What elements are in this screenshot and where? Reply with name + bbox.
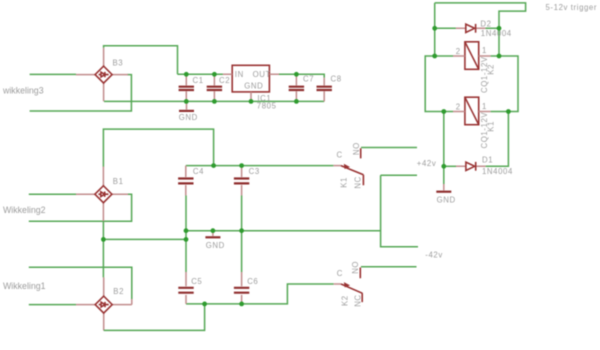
- wire B3 plus output to top rail: [104, 46, 178, 75]
- svg-text:1: 1: [482, 102, 487, 111]
- svg-text:D2: D2: [480, 20, 491, 29]
- svg-text:C: C: [337, 269, 343, 278]
- svg-text:D1: D1: [482, 156, 493, 165]
- wire mid ground rail: [186, 230, 381, 232]
- svg-text:+42v: +42v: [417, 159, 437, 168]
- capacitor C7: [289, 74, 314, 101]
- svg-text:OUT: OUT: [253, 70, 271, 79]
- wire K2 NO: [361, 266, 417, 268]
- diode D2 1N4004: [435, 20, 512, 38]
- svg-text:GND: GND: [179, 113, 198, 122]
- wire B1 minus to C4 bottom: [103, 238, 186, 240]
- svg-text:K1: K1: [487, 121, 496, 132]
- svg-text:Wikkeling2: Wikkeling2: [3, 205, 46, 215]
- wire B1 plus output to mid rail: [103, 129, 213, 167]
- wire C5 C6 bottom rail to K2 common: [186, 284, 334, 304]
- wire wikkeling2 upper: [29, 193, 76, 195]
- wire ground rail top section: [104, 100, 324, 102]
- svg-text:1N4004: 1N4004: [481, 29, 512, 38]
- svg-text:NC: NC: [354, 294, 363, 306]
- svg-text:C6: C6: [247, 277, 258, 286]
- wire C4 bottom column: [185, 196, 187, 273]
- svg-text:1N4004: 1N4004: [482, 167, 513, 176]
- capacitor C2: [207, 74, 230, 101]
- junction dots bottom section: [202, 302, 207, 307]
- svg-text:GND: GND: [244, 82, 263, 91]
- svg-text:K1: K1: [340, 177, 349, 188]
- svg-text:K2: K2: [487, 64, 496, 75]
- wire wikkeling1 upper to B2 right pin: [29, 267, 132, 299]
- ground symbol GND right: [436, 166, 455, 204]
- wire wikkeling1 lower: [29, 304, 76, 306]
- svg-text:C2: C2: [219, 76, 230, 85]
- capacitor C5: [178, 272, 202, 304]
- capacitor C3: [234, 166, 260, 196]
- wire to -42v: [381, 175, 418, 247]
- capacitor C4: [178, 166, 204, 196]
- svg-text:2: 2: [456, 47, 461, 56]
- wire IC1 OUT to C7 C8: [279, 74, 324, 78]
- relay contact K1: [333, 142, 363, 188]
- junction dots mid section: [211, 163, 216, 168]
- relay coil K2: [453, 42, 496, 93]
- svg-text:C: C: [337, 150, 343, 159]
- junction dots top section: [184, 72, 189, 77]
- capacitor C8: [317, 75, 342, 102]
- svg-text:NC: NC: [354, 176, 363, 188]
- wire mid +42v rail: [186, 165, 334, 167]
- wire B2 minus output to C5 C6 rail: [104, 304, 205, 331]
- wire K2 pin1 bracket to K1 pin1: [491, 56, 518, 112]
- junction dots right section: [432, 26, 437, 31]
- relay coil K1: [453, 97, 496, 148]
- svg-text:C8: C8: [331, 75, 342, 84]
- capacitor C1: [179, 74, 204, 101]
- wire left coil column: [434, 3, 436, 56]
- svg-text:C1: C1: [193, 76, 204, 85]
- svg-text:GND: GND: [206, 241, 225, 250]
- svg-text:Wikkeling1: Wikkeling1: [3, 281, 46, 291]
- ground symbol GND mid: [205, 231, 224, 250]
- wire K1 NC stub rail: [381, 174, 417, 176]
- svg-text:IN: IN: [235, 70, 244, 79]
- svg-text:2: 2: [456, 102, 461, 111]
- svg-text:C4: C4: [193, 167, 204, 176]
- wire K2 pin2 bracket to K1 pin2: [425, 56, 453, 112]
- svg-text:NO: NO: [351, 261, 360, 274]
- bridge rectifier B3: [76, 48, 128, 102]
- wire K1 NO: [361, 147, 417, 149]
- svg-text:-42v: -42v: [425, 251, 443, 260]
- wire wikkeling3 upper: [30, 73, 76, 75]
- svg-text:GND: GND: [437, 196, 456, 205]
- bridge rectifier B2: [76, 277, 132, 330]
- svg-text:C5: C5: [191, 277, 202, 286]
- svg-text:1: 1: [482, 46, 487, 55]
- ground symbol GND top: [179, 101, 198, 122]
- svg-text:C7: C7: [303, 75, 314, 84]
- wire K1 pin2 down to junction: [443, 112, 445, 167]
- wire 5-12v trigger net: [435, 3, 526, 56]
- svg-text:5-12v trigger: 5-12v trigger: [546, 3, 598, 12]
- relay contact K2: [334, 261, 363, 307]
- svg-text:K2: K2: [340, 295, 349, 306]
- wire C3 bottom column: [241, 196, 243, 273]
- wire wikkeling3 lower to B3 right pin: [30, 75, 132, 111]
- svg-text:B3: B3: [113, 59, 124, 68]
- capacitor C6: [234, 272, 258, 304]
- diode D1 1N4004: [444, 156, 513, 177]
- svg-text:wikkeling3: wikkeling3: [2, 86, 44, 96]
- wire wikkeling2 lower to B1 right pin: [29, 194, 132, 221]
- svg-text:C3: C3: [249, 167, 260, 176]
- svg-text:NO: NO: [352, 142, 361, 155]
- svg-text:7805: 7805: [257, 101, 277, 110]
- wire K1 pin1 to D1 cathode: [486, 112, 509, 167]
- bridge rectifier B1: [76, 167, 128, 222]
- wire B1 minus vertical to B2: [102, 221, 104, 277]
- svg-text:B1: B1: [113, 177, 124, 186]
- voltage regulator IC1 7805: [223, 65, 279, 110]
- wire top rail to IC1 IN: [178, 73, 223, 75]
- svg-text:B2: B2: [113, 287, 124, 296]
